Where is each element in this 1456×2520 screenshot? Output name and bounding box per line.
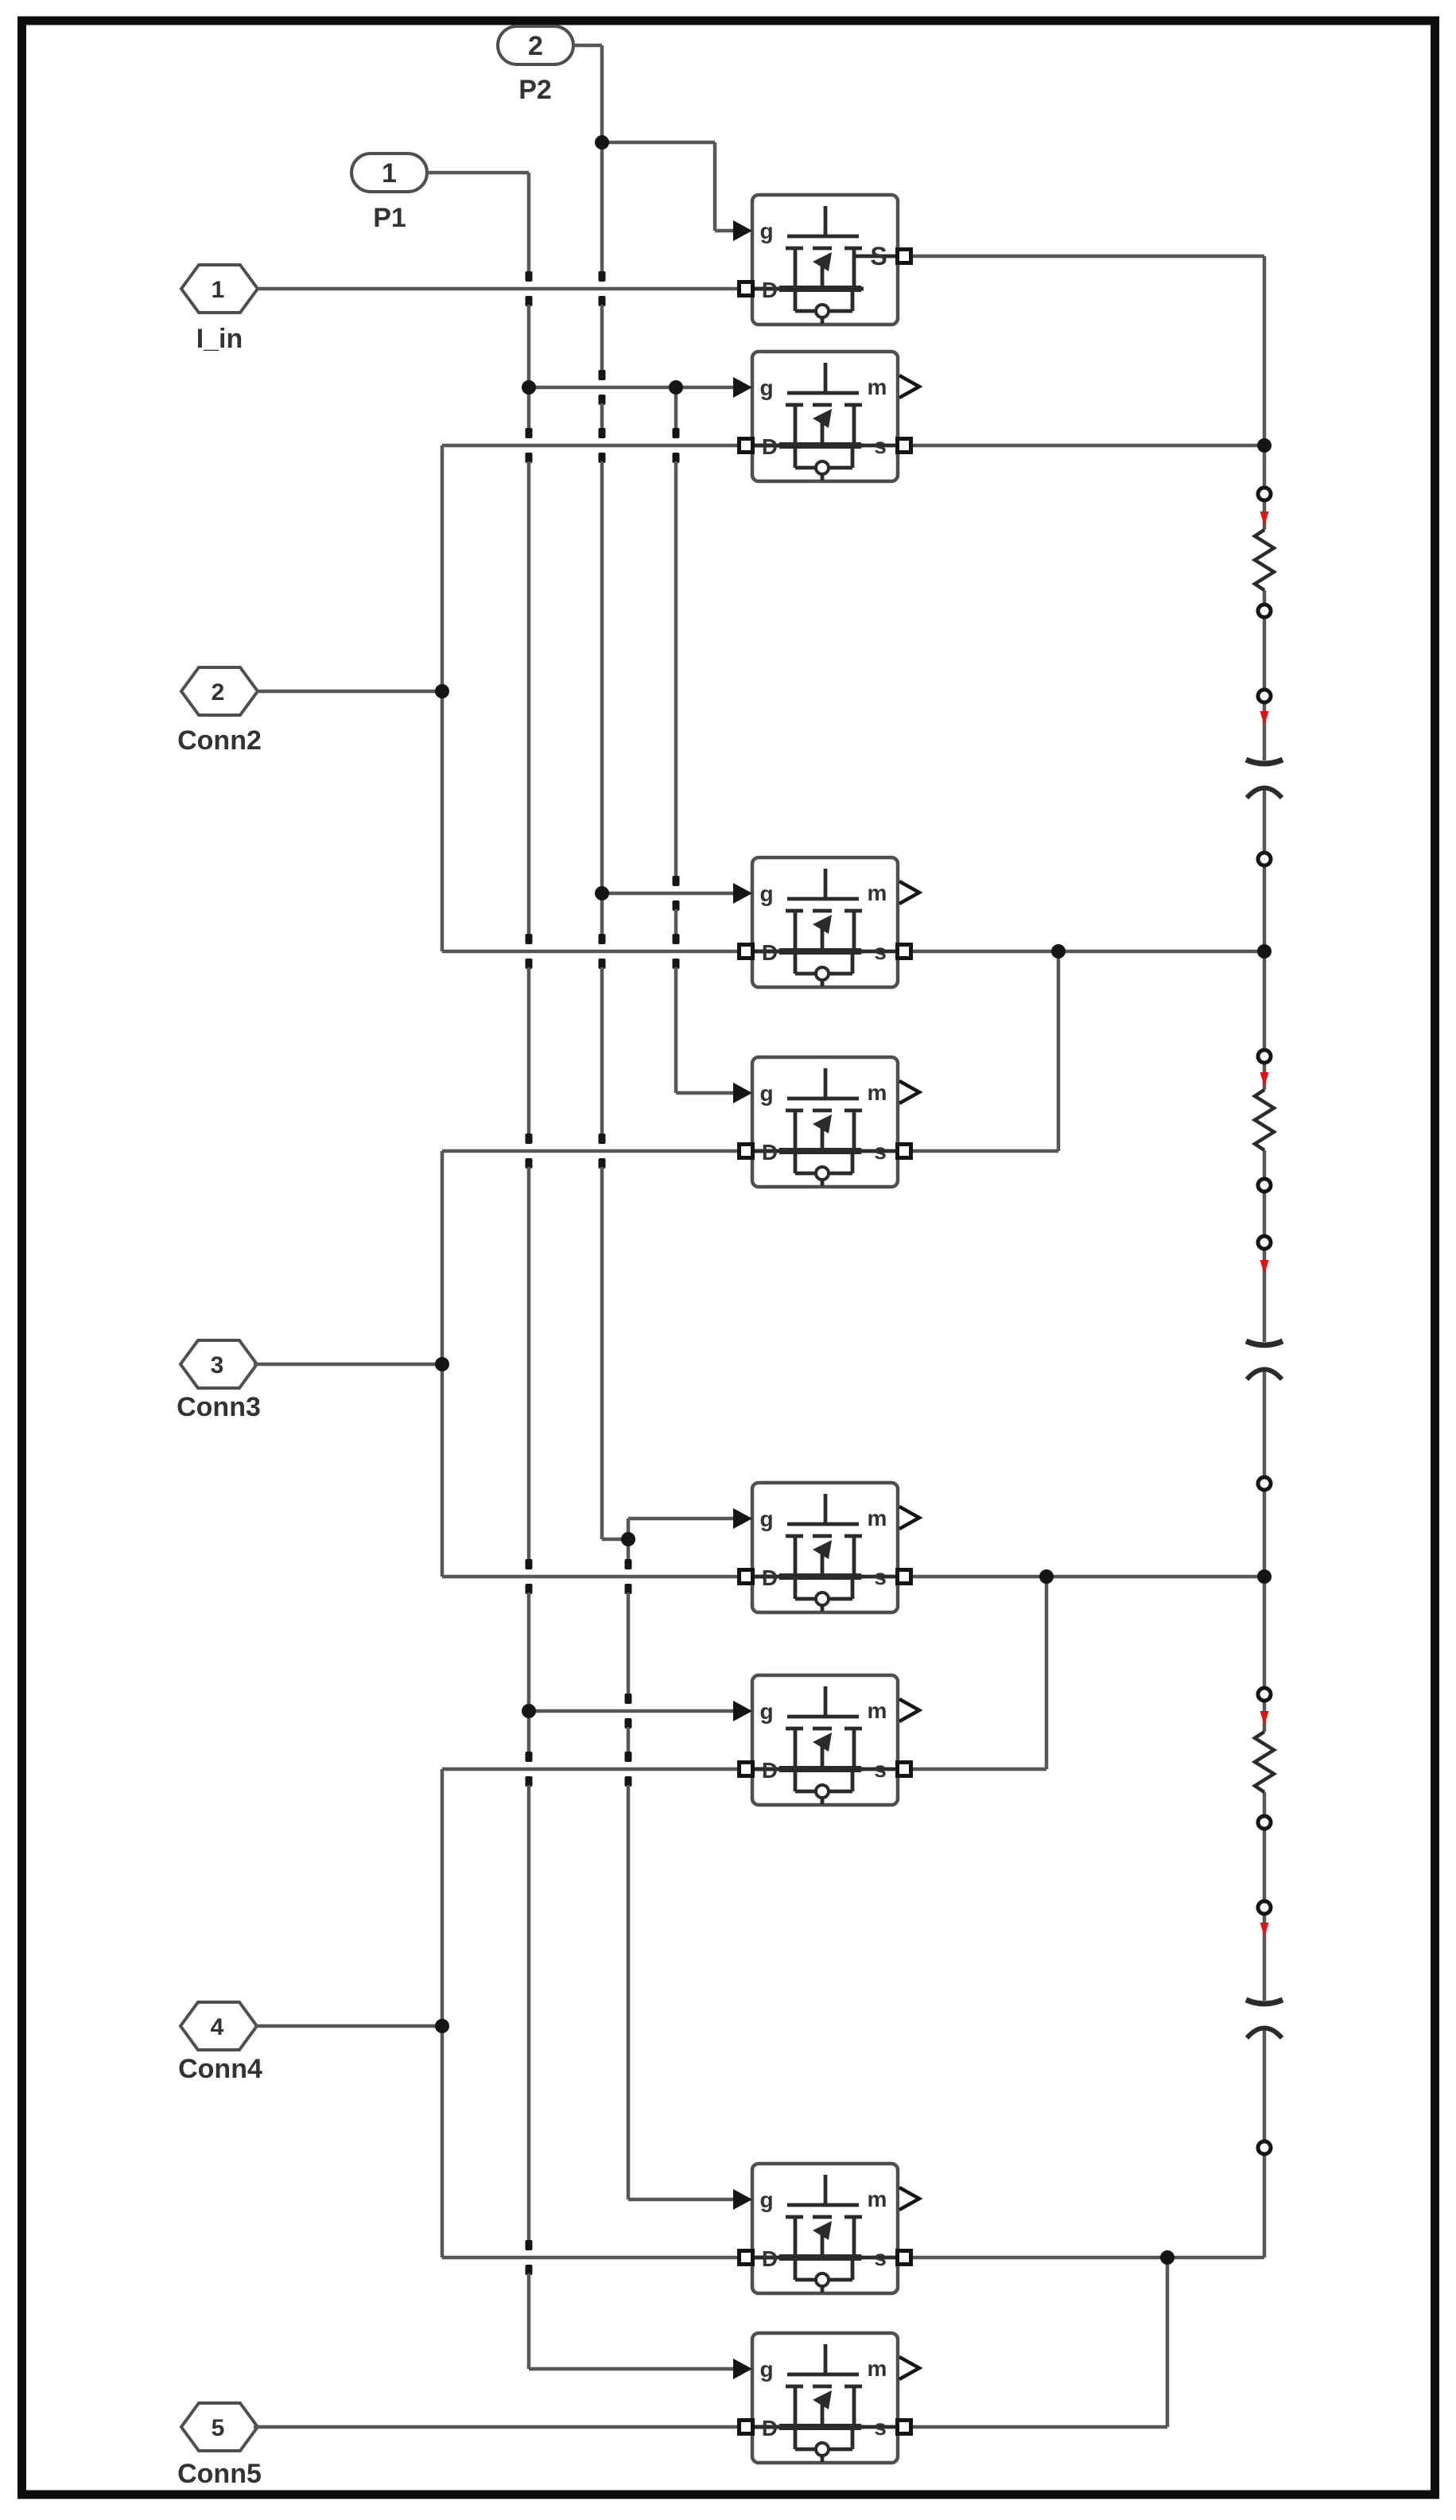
svg-text:1: 1 [382, 158, 397, 189]
svg-text:m: m [868, 1080, 887, 1105]
svg-text:D: D [762, 940, 778, 965]
svg-text:D: D [762, 2246, 778, 2271]
svg-text:I_in: I_in [196, 324, 243, 354]
svg-text:D: D [762, 278, 778, 302]
svg-text:4: 4 [211, 2014, 224, 2040]
svg-text:g: g [759, 2187, 773, 2212]
svg-text:1: 1 [212, 277, 225, 303]
svg-text:Conn5: Conn5 [177, 2459, 262, 2489]
svg-text:g: g [759, 1507, 773, 1531]
svg-text:s: s [874, 1565, 887, 1589]
svg-text:m: m [868, 1698, 887, 1723]
svg-text:S: S [870, 242, 887, 270]
svg-text:D: D [762, 2416, 778, 2440]
svg-text:s: s [874, 1757, 887, 1782]
svg-text:s: s [874, 1139, 887, 1164]
svg-text:g: g [759, 219, 773, 243]
svg-text:g: g [759, 2357, 773, 2382]
svg-text:3: 3 [211, 1352, 224, 1379]
svg-text:s: s [874, 2246, 887, 2270]
svg-text:s: s [874, 2415, 887, 2440]
svg-text:D: D [762, 1758, 778, 1783]
svg-text:D: D [762, 434, 778, 459]
svg-text:D: D [762, 1140, 778, 1165]
svg-text:P2: P2 [518, 75, 552, 105]
svg-text:m: m [868, 1506, 887, 1530]
svg-text:m: m [868, 2356, 887, 2381]
svg-text:Conn4: Conn4 [178, 2054, 262, 2084]
svg-text:m: m [868, 881, 887, 905]
svg-text:5: 5 [212, 2415, 225, 2441]
svg-text:s: s [874, 939, 887, 964]
svg-text:m: m [868, 2187, 887, 2211]
svg-text:Conn3: Conn3 [177, 1392, 261, 1422]
svg-text:D: D [762, 1565, 778, 1590]
svg-text:2: 2 [528, 31, 543, 61]
svg-text:g: g [759, 1081, 773, 1106]
svg-text:P1: P1 [373, 203, 406, 233]
svg-text:g: g [759, 881, 773, 906]
svg-text:m: m [868, 375, 887, 399]
svg-text:2: 2 [212, 679, 225, 706]
svg-text:s: s [874, 434, 887, 458]
svg-text:Conn2: Conn2 [177, 725, 262, 756]
svg-text:g: g [759, 375, 773, 400]
svg-text:g: g [759, 1699, 773, 1724]
